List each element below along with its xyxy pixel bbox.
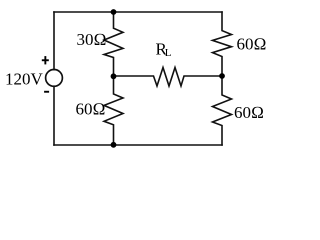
svg-text:L: L <box>165 47 172 59</box>
resistor 60ohm (right branch top) <box>213 12 232 76</box>
junction node dot top middle <box>111 9 117 15</box>
resistor 60ohm (middle branch bottom) <box>104 76 123 145</box>
wire left lower (source - to bottom-left corner) <box>53 86 55 145</box>
resistor 60ohm (right branch bottom) <box>213 76 232 145</box>
svg-text:60Ω: 60Ω <box>76 100 106 119</box>
svg-text:120V: 120V <box>5 70 44 89</box>
resistor RL (horizontal bridge) <box>114 68 223 87</box>
svg-text:60Ω: 60Ω <box>234 103 264 122</box>
voltage source 120V <box>46 70 63 87</box>
svg-text:60Ω: 60Ω <box>237 34 267 53</box>
label + polarity <box>42 59 49 61</box>
junction node dot middle-right of bridge <box>219 73 225 79</box>
junction node dot middle-left of bridge <box>111 73 117 79</box>
wire top: node A to node C <box>54 11 222 13</box>
label - polarity <box>44 91 49 93</box>
wire bottom: node D to node F <box>54 144 222 146</box>
resistor 30ohm (middle branch top) <box>104 12 123 76</box>
junction node dot bottom middle <box>111 142 117 148</box>
svg-text:30Ω: 30Ω <box>77 30 107 49</box>
wire left upper (source + to top-left corner) <box>53 12 55 70</box>
